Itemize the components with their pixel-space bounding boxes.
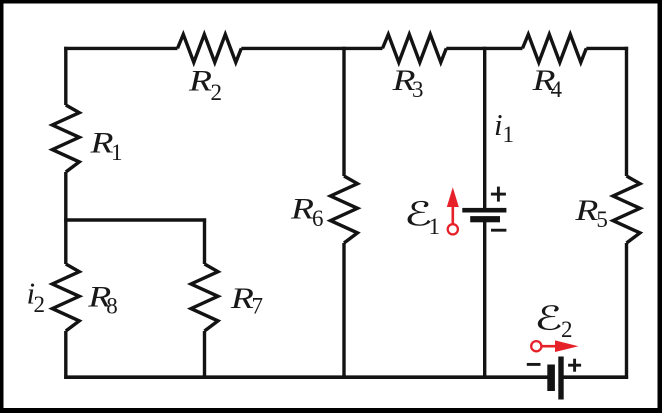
wire right branch lower (R5 to bottom-right corner) xyxy=(625,243,628,379)
label R1 xyxy=(89,126,122,164)
svg-text:R: R xyxy=(574,194,598,227)
resistor R6 xyxy=(331,176,358,243)
wire EMF1 branch upper (top wire to battery EMF1) xyxy=(483,47,486,208)
battery EMF2 positive plate (long thin) xyxy=(558,357,563,400)
wire bottom segment right (battery EMF2 to bottom-right corner) xyxy=(562,375,628,379)
svg-text:6: 6 xyxy=(312,206,324,231)
svg-text:8: 8 xyxy=(106,294,118,319)
svg-text:R: R xyxy=(290,193,314,226)
battery EMF2 plus sign xyxy=(568,359,581,372)
label R8 xyxy=(87,280,118,318)
label i2 (current through R8 branch) xyxy=(27,276,46,317)
label EMF1 script letter xyxy=(408,201,440,239)
label i1 (current through EMF1 branch) xyxy=(494,107,514,147)
resistor R5 xyxy=(613,176,640,243)
resistor R2 xyxy=(178,34,242,62)
svg-text:2: 2 xyxy=(34,292,46,317)
wire top segment R4 to top-right corner xyxy=(586,47,628,50)
wire top segment left (node A to R2) xyxy=(64,47,177,50)
current direction arrow for EMF2 (red, rightward, open circle tail) xyxy=(531,340,578,352)
label EMF2 script letter xyxy=(538,305,573,342)
resistor R1 xyxy=(52,105,79,172)
battery EMF1 minus sign xyxy=(491,229,506,232)
wire left branch upper (top-left corner to R1) xyxy=(64,47,67,105)
svg-text:1: 1 xyxy=(503,122,515,147)
label R5 xyxy=(574,194,608,232)
svg-text:5: 5 xyxy=(596,207,608,232)
svg-text:i: i xyxy=(494,107,503,142)
label R4 xyxy=(531,64,562,102)
wire middle horizontal (left branch to R7 branch) xyxy=(64,218,206,221)
svg-text:4: 4 xyxy=(551,77,563,102)
label R3 xyxy=(391,64,423,102)
svg-text:3: 3 xyxy=(412,77,424,102)
svg-text:2: 2 xyxy=(211,80,223,105)
wire left branch lower (R8 to bottom-left corner) xyxy=(64,331,67,379)
battery EMF2 minus sign xyxy=(527,363,541,366)
wire top segment R2 to R3 xyxy=(241,47,382,50)
battery EMF1 plus sign xyxy=(491,187,506,202)
current direction arrow for EMF1 (red, upward, open circle tail) xyxy=(447,187,459,234)
resistor R8 xyxy=(52,264,79,331)
wire right branch upper (top-right corner to R5) xyxy=(625,47,628,176)
wire center branch lower (R6 to bottom wire junction) xyxy=(342,243,345,379)
svg-text:7: 7 xyxy=(252,294,264,319)
battery EMF2 negative plate (short thick) xyxy=(547,365,555,392)
battery EMF1 negative plate (short) xyxy=(470,216,500,222)
wire R7 branch lower (R7 to bottom wire junction) xyxy=(203,331,206,379)
wire left branch middle (R1 to node at horizontal wire and R8) xyxy=(64,172,67,264)
label R6 xyxy=(290,193,324,231)
resistor R4 xyxy=(523,34,587,62)
wire EMF1 branch lower (battery EMF1 to bottom wire junction) xyxy=(483,219,486,379)
svg-text:1: 1 xyxy=(111,140,123,165)
resistor R7 xyxy=(191,264,218,331)
svg-text:R: R xyxy=(188,65,212,98)
battery EMF1 positive plate (long) xyxy=(462,208,506,213)
wire center branch upper (top wire to R6) xyxy=(342,47,345,176)
wire R7 branch upper xyxy=(203,218,206,264)
svg-text:1: 1 xyxy=(429,214,441,239)
wire bottom segment left (bottom-left corner to battery EMF2) xyxy=(64,375,548,379)
svg-text:R: R xyxy=(230,282,254,315)
svg-text:R: R xyxy=(89,126,113,159)
resistor R3 xyxy=(383,34,447,62)
wire top segment R3 to R4 xyxy=(446,47,522,50)
label R2 xyxy=(188,65,222,106)
label R7 xyxy=(230,282,263,319)
svg-text:2: 2 xyxy=(561,317,573,342)
